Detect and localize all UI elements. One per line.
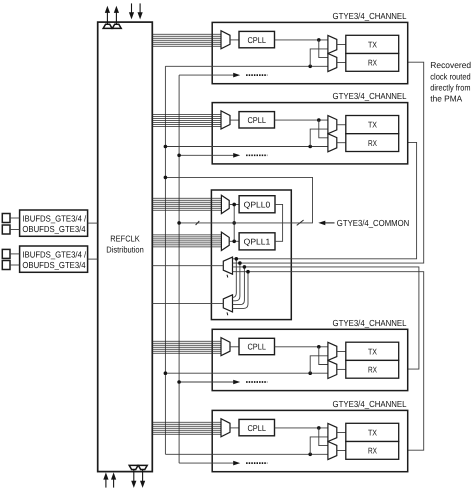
wire southbound mux to REFCLK distribution <box>152 302 223 304</box>
wire buffer 2 to REFCLK distribution <box>88 258 98 260</box>
wire RX mux to RX (channel 4) <box>337 450 346 452</box>
GTYE3/4_CHANNEL 2 box <box>212 103 408 164</box>
TX block (channel 1) <box>346 35 399 53</box>
svg-text:OBUFDS_GTE3/4: OBUFDS_GTE3/4 <box>22 260 85 270</box>
CPLL C4 <box>239 419 275 435</box>
RX block (channel 1) <box>346 54 399 72</box>
drop wire from cross line 4 to southbound mux <box>233 272 249 309</box>
GTYE3/4_CHANNEL 3 box <box>212 329 408 390</box>
package pin pad N of buffer 2 <box>2 261 10 270</box>
bus slash left of COMMON <box>196 221 200 225</box>
dashed clock arrow to adjacent channel (channel 3) <box>179 380 267 385</box>
svg-text:Recovered: Recovered <box>430 60 471 70</box>
wire QPLL1 mux to QPLL1 <box>229 240 239 242</box>
branch wire QPLL to TX clock mux (channel 2) <box>310 129 328 146</box>
IBUFDS/OBUFDS buffer block 2 <box>20 246 88 272</box>
wire TX mux to TX (channel 2) <box>337 124 346 126</box>
QPLL clock wire into channel 4 <box>165 453 328 455</box>
junction dot trunk on wire A <box>164 176 168 180</box>
wire pad N to buffer 2 <box>10 264 20 266</box>
wire CPLL output to TX clock mux (channel 1) <box>275 39 328 41</box>
northbound ring clock mux (selects from cross lines) <box>223 257 232 277</box>
branch wire QPLL to TX clock mux (channel 3) <box>310 356 328 373</box>
branch wire CPLL to RX clock mux (channel 4) <box>319 428 328 446</box>
svg-text:GTYE3/4_COMMON: GTYE3/4_COMMON <box>337 218 410 228</box>
top southbound clock input arrows <box>129 3 143 19</box>
drop wire from cross line 3 to southbound mux <box>233 267 245 305</box>
wire mux to CPLL (channel 2) <box>230 119 239 121</box>
wire pad N to buffer 1 <box>10 229 20 231</box>
branch wire QPLL to TX clock mux (channel 4) <box>310 437 328 454</box>
top northbound clock output arrows <box>105 6 119 24</box>
TX block (channel 2) <box>346 116 399 134</box>
GTYE3/4_COMMON block outline <box>211 190 291 320</box>
QPLL clock wire into channel 2 <box>165 146 328 148</box>
RX clock mux (channel 2) <box>328 134 337 152</box>
dashed clock arrow to adjacent channel (channel 2) <box>179 153 267 158</box>
junction dot ring line 1 <box>235 257 239 261</box>
RX clock mux (channel 4) <box>328 442 337 460</box>
junction dot QPLL wire (channel 2) <box>308 145 312 149</box>
QPLL clock wire into channel 3 <box>165 372 328 374</box>
wire QPLL0 mux to QPLL0 <box>229 203 239 205</box>
QPLL0 block <box>239 196 275 213</box>
wire mux to CPLL (channel 4) <box>230 427 239 429</box>
QPLL0 input mux <box>221 195 229 213</box>
junction dot ring line 3 <box>243 265 247 269</box>
drop wire from cross line 1 to southbound mux <box>233 259 237 298</box>
CPLL C1 <box>239 31 275 47</box>
junction dot ring line 2 <box>238 261 242 265</box>
svg-text:the PMA: the PMA <box>430 94 462 104</box>
branch wire CPLL to RX clock mux (channel 2) <box>319 120 328 138</box>
wire northbound mux to REFCLK distribution <box>152 265 223 267</box>
GTYE3/4_COMMON label arrow <box>318 221 334 226</box>
REFCLK Distribution block <box>98 22 153 472</box>
svg-text:TX: TX <box>368 120 377 130</box>
junction dot QPLL wire (channel 1) <box>308 65 312 69</box>
refclk bundle to channel 2 mux <box>152 115 221 127</box>
QPLL1 input mux <box>221 232 229 250</box>
svg-text:GTYE3/4_CHANNEL: GTYE3/4_CHANNEL <box>333 318 407 328</box>
refclk bundle to channel 1 mux <box>152 34 221 46</box>
svg-text:IBUFDS_GTE3/4 /: IBUFDS_GTE3/4 / <box>22 214 86 224</box>
junction dot wire A to channel 3 <box>164 371 168 375</box>
junction dot QPLL1 mux output <box>232 240 236 244</box>
wire RX mux to RX (channel 3) <box>337 368 346 370</box>
QPLL clock trunk wire (left stub, through COMMON, up and back to wire A) <box>165 177 312 223</box>
bottom southbound clock output arrows <box>131 470 145 488</box>
GTYE3/4_CHANNEL 4 box <box>212 410 408 471</box>
channel 2 reference clock mux <box>221 111 230 129</box>
branch wire QPLL to TX clock mux (channel 1) <box>310 49 328 66</box>
svg-text:REFCLK: REFCLK <box>110 233 140 243</box>
branch wire CPLL to RX clock mux (channel 1) <box>319 40 328 58</box>
svg-text:RX: RX <box>368 58 377 68</box>
cross wire: channel 4 RX recovered clock to ring line 4 <box>233 272 424 451</box>
svg-text:GTYE3/4_CHANNEL: GTYE3/4_CHANNEL <box>333 11 407 21</box>
package pin pad P of buffer 1 <box>2 214 10 223</box>
package pin pad P of buffer 2 <box>2 249 10 258</box>
RX block (channel 2) <box>346 134 399 152</box>
junction dot QPLL wire (channel 4) <box>308 453 312 457</box>
svg-text:IBUFDS_GTE3/4 /: IBUFDS_GTE3/4 / <box>22 250 86 260</box>
cross wire: channel 3 RX recovered clock to ring line 3 <box>233 267 419 369</box>
svg-text:TX: TX <box>368 428 377 438</box>
bus slash right of COMMON <box>297 220 304 225</box>
svg-text:directly from: directly from <box>430 82 470 92</box>
dashed clock arrow to adjacent channel (channel 1) <box>179 73 267 78</box>
refclk bundle to channel 3 mux <box>152 341 221 353</box>
dashed clock arrow to adjacent channel (channel 4) <box>179 461 267 466</box>
IBUFDS/OBUFDS buffer block 1 <box>20 210 88 236</box>
svg-text:QPLL0: QPLL0 <box>244 199 271 209</box>
wire TX mux to TX (channel 4) <box>337 432 346 434</box>
junction dot QPLL0 mux output <box>232 203 236 207</box>
svg-text:clock routed: clock routed <box>430 71 471 81</box>
channel 3 reference clock mux <box>221 338 230 356</box>
branch wire CPLL to RX clock mux (channel 3) <box>319 347 328 365</box>
RX clock mux (channel 3) <box>328 360 337 378</box>
refclk bundle to QPLL0 mux <box>152 198 221 210</box>
TX block (channel 4) <box>346 423 399 441</box>
junction dot on GTGREFCLK wire <box>232 221 236 225</box>
wire CPLL output to TX clock mux (channel 4) <box>275 427 328 429</box>
junction dot CPLL output (channel 3) <box>317 345 321 349</box>
refclk bundle to channel 4 mux <box>152 422 221 434</box>
southbound ring clock mux <box>223 295 232 315</box>
wire RX mux to RX (channel 1) <box>337 62 346 64</box>
wire CPLL output to TX clock mux (channel 2) <box>275 119 328 121</box>
RX block (channel 3) <box>346 360 399 378</box>
QPLL clock wire into channel 1 <box>165 65 328 67</box>
wire CPLL output to TX clock mux (channel 3) <box>275 346 328 348</box>
junction dot CPLL output (channel 1) <box>317 38 321 42</box>
svg-text:TX: TX <box>368 346 377 356</box>
top refclk output buffer (left, trapezoid pair) <box>103 24 121 28</box>
TX clock mux (channel 4) <box>328 423 337 441</box>
junction dot wire A to channel 2 <box>164 145 168 149</box>
recovered clock annotation text <box>430 60 471 103</box>
RX clock mux (channel 1) <box>328 54 337 72</box>
svg-text:GTYE3/4_CHANNEL: GTYE3/4_CHANNEL <box>333 399 407 409</box>
junction dot trunk on wire B <box>177 221 181 225</box>
drop wire from cross line 2 to southbound mux <box>233 263 240 301</box>
svg-text:Distribution: Distribution <box>106 244 144 254</box>
GTYE3/4_CHANNEL 1 box <box>212 22 408 83</box>
svg-text:CPLL: CPLL <box>247 115 266 125</box>
cross wire: channel 1 RX recovered clock to ring line 2 <box>233 62 424 263</box>
TX block (channel 3) <box>346 342 399 360</box>
svg-text:GTYE3/4_CHANNEL: GTYE3/4_CHANNEL <box>333 91 407 101</box>
junction dot wire B to channel 2 arrow <box>177 154 181 158</box>
junction dot CPLL output (channel 2) <box>317 118 321 122</box>
TX clock mux (channel 2) <box>328 116 337 134</box>
package pin pad N of buffer 1 <box>2 225 10 234</box>
QPLL1 block <box>239 233 275 250</box>
vertical tie wire between QPLL mux outputs <box>233 204 235 241</box>
svg-text:TX: TX <box>368 40 377 50</box>
QPLL1 output wire <box>275 223 283 241</box>
CPLL C2 <box>239 112 275 128</box>
bottom refclk output buffer (trapezoid pair) <box>129 465 147 469</box>
svg-text:CPLL: CPLL <box>247 423 266 433</box>
TX clock mux (channel 1) <box>328 35 337 53</box>
bottom northbound clock input arrows <box>103 472 116 487</box>
wire mux to CPLL (channel 3) <box>230 346 239 348</box>
vertical QPLL-clock distribution wire A <box>164 66 166 454</box>
junction dot wire B to channel 3 arrow <box>177 380 181 384</box>
CPLL C3 <box>239 338 275 354</box>
junction dot CPLL output (channel 4) <box>317 426 321 430</box>
svg-text:RX: RX <box>368 365 377 375</box>
svg-text:OBUFDS_GTE3/4: OBUFDS_GTE3/4 <box>22 224 85 234</box>
refclk bundle to QPLL1 mux <box>152 235 221 247</box>
junction dot QPLL wire (channel 3) <box>308 371 312 375</box>
channel 1 reference clock mux <box>221 31 230 49</box>
RX block (channel 4) <box>346 442 399 460</box>
wire pad P to buffer 2 <box>10 253 20 255</box>
channel 4 reference clock mux <box>221 419 230 437</box>
svg-text:RX: RX <box>368 446 377 456</box>
wire RX mux to RX (channel 2) <box>337 142 346 144</box>
wire pad P to buffer 1 <box>10 217 20 219</box>
svg-text:RX: RX <box>368 138 377 148</box>
svg-text:CPLL: CPLL <box>247 342 266 352</box>
junction dot ring line 4 <box>246 270 250 274</box>
TX clock mux (channel 3) <box>328 342 337 360</box>
svg-text:QPLL1: QPLL1 <box>244 237 271 247</box>
cross wire: channel 2 RX recovered clock to ring line 1 <box>233 142 417 258</box>
QPLL0 output wire <box>275 204 283 222</box>
wire TX mux to TX (channel 1) <box>337 44 346 46</box>
wire buffer 1 to REFCLK distribution <box>88 222 98 224</box>
wire TX mux to TX (channel 3) <box>337 350 346 352</box>
wire mux to CPLL (channel 1) <box>230 39 239 41</box>
vertical ring-clock distribution wire B <box>178 75 180 463</box>
svg-text:CPLL: CPLL <box>247 35 266 45</box>
